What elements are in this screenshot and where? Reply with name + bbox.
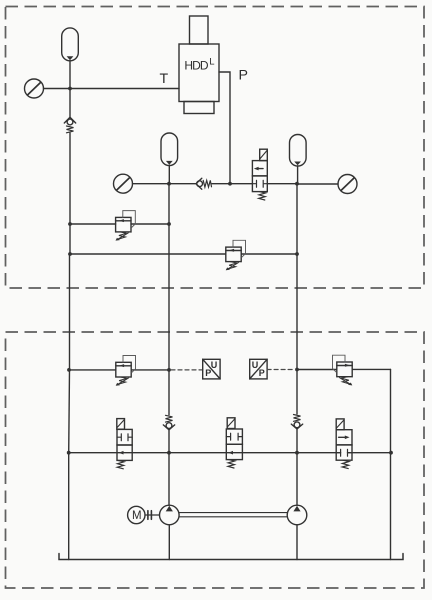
solenoid valve V-BM (2/2) bbox=[226, 418, 242, 468]
hydraulic pump P2 bbox=[287, 453, 307, 560]
svg-text:L: L bbox=[209, 57, 214, 68]
svg-text:U: U bbox=[211, 360, 218, 370]
electric motor M1 bbox=[128, 506, 145, 523]
accumulator A2 bbox=[161, 133, 178, 184]
relief valve RV2 bbox=[226, 240, 246, 270]
junction: row B far-left node bbox=[67, 451, 71, 455]
wire: A3 vertical through lower enclosure bbox=[296, 254, 298, 414]
port label T bbox=[160, 71, 169, 87]
solenoid valve V1 (2/2, top section) bbox=[252, 149, 267, 200]
pressure gauge G3 bbox=[338, 175, 357, 194]
drive shaft to pump P2 (double line) bbox=[179, 513, 287, 517]
check valve CV-R (spring top, seat down) bbox=[291, 415, 302, 430]
pressure transducer U/P 2 bbox=[250, 359, 267, 379]
wire: dashed link row A to transducer U/P 1 bbox=[171, 369, 203, 371]
wire: gauge G2 row (y=183.7) left part bbox=[133, 183, 170, 185]
wire: P node to solenoid valve V1 bbox=[230, 183, 252, 185]
solenoid valve V-BR (2/2) bbox=[336, 419, 352, 469]
relief valve RV-BR (mirrored) bbox=[333, 355, 353, 385]
wire: A2 vertical from gauge row down through row1 into lower enclosure bbox=[168, 184, 170, 415]
junction: A1 / gauge / T-line node bbox=[68, 87, 72, 91]
tank / base line with end ticks bbox=[59, 554, 403, 560]
pressure gauge G1 bbox=[25, 79, 44, 98]
wire: left vertical row2 down into lower enclosure to tank line bbox=[68, 254, 71, 560]
junction: row2 right node bbox=[295, 252, 299, 256]
junction: row A node at A3 vertical bbox=[295, 368, 299, 372]
wire: A3 node to gauge G3 bbox=[297, 183, 338, 185]
wire: lower row A left segment through relief RV-BL bbox=[69, 369, 169, 371]
svg-text:T: T bbox=[160, 71, 169, 87]
solenoid valve V-BL (2/2) bbox=[117, 419, 132, 469]
manifold block HDD bbox=[179, 16, 219, 114]
junction: row B node at A2 vertical bbox=[167, 451, 171, 455]
frame: lower enclosure dashed border bbox=[6, 332, 425, 588]
svg-text:HDD: HDD bbox=[184, 58, 209, 72]
wire: right vertical from row A corner down to tank line bbox=[390, 369, 392, 559]
wire: row2 (relief RV2 row) bbox=[70, 253, 297, 255]
svg-text:P: P bbox=[259, 368, 265, 378]
junction: row B right node bbox=[389, 451, 393, 455]
svg-text:M: M bbox=[132, 510, 142, 522]
check valve CV1 (spring loaded, flow up) bbox=[64, 117, 75, 133]
shaft coupling between motor and pump P1 bbox=[145, 511, 160, 520]
wire: CV-L to row B bbox=[168, 430, 170, 453]
port label P bbox=[239, 68, 248, 84]
wire: row1 (relief RV1 row) bbox=[70, 223, 169, 225]
svg-text:P: P bbox=[239, 68, 248, 84]
junction: A3 node bbox=[295, 182, 299, 186]
junction: row A left node bbox=[67, 368, 71, 372]
hydraulic pump P1 bbox=[160, 453, 180, 560]
junction: row A node at A2 vertical bbox=[167, 368, 171, 372]
wire: P line from HDD block down to pressure rail bbox=[219, 72, 230, 184]
wire: T line from gauge G1 to HDD block bbox=[44, 88, 180, 90]
label HDD with superscript L bbox=[184, 57, 214, 73]
wire: row B main line bbox=[69, 452, 391, 454]
junction: A2 node on gauge row bbox=[167, 182, 171, 186]
wire: A3 vertical down to row2 bbox=[296, 184, 298, 254]
junction: row1 right node bbox=[167, 222, 171, 226]
wire: row A right segment through relief RV-BR bbox=[297, 368, 391, 370]
junction: row2 left node bbox=[68, 252, 72, 256]
wire: left vertical from CV1 to row1 bbox=[69, 133, 71, 224]
pressure transducer U/P 1 bbox=[203, 359, 220, 379]
svg-text:U: U bbox=[252, 360, 258, 370]
wire: V1 to A3 node bbox=[267, 183, 297, 185]
wire: row from A2 node to check valve CV2 bbox=[169, 183, 196, 185]
wire: CV2 to P node bbox=[212, 183, 230, 185]
accumulator A1 bbox=[62, 28, 79, 89]
junction: P node bbox=[228, 182, 232, 186]
accumulator A3 bbox=[290, 135, 307, 184]
check valve CV2 (horizontal, spring right) bbox=[196, 178, 212, 189]
pressure gauge G2 bbox=[114, 174, 133, 193]
svg-text:P: P bbox=[205, 368, 211, 378]
wire: left vertical from T node down to check valve CV1 bbox=[69, 89, 71, 118]
wire: dashed link U/P 2 to A3 vertical bbox=[267, 369, 295, 371]
relief valve RV1 bbox=[116, 211, 136, 241]
wire: CV-R to row B bbox=[296, 429, 298, 453]
relief valve RV-BL bbox=[116, 356, 136, 386]
frame: upper enclosure dashed border bbox=[6, 7, 425, 289]
check valve CV-L (spring top, seat down) bbox=[163, 415, 174, 430]
junction: row B node at A3 vertical bbox=[295, 451, 299, 455]
wire: left vertical row1 to row2 bbox=[69, 224, 71, 254]
junction: row1 left node bbox=[68, 222, 72, 226]
